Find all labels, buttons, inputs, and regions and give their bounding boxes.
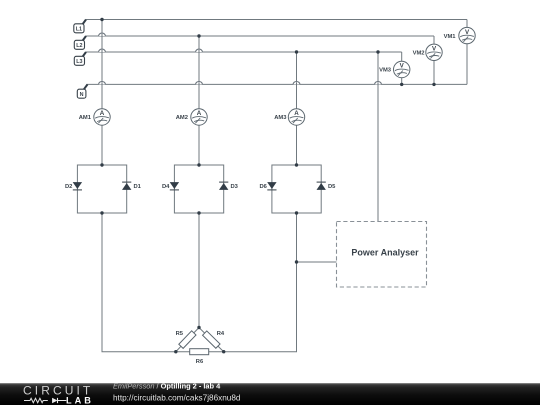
wire VM2 leads bbox=[433, 36, 435, 84]
resistor R4 bbox=[197, 326, 225, 354]
svg-text:Power Analyser: Power Analyser bbox=[351, 248, 419, 258]
wire bridge loop 3 bbox=[272, 165, 321, 213]
svg-text:AM1: AM1 bbox=[79, 115, 92, 121]
svg-text:L2: L2 bbox=[76, 43, 82, 49]
label AM2 bbox=[176, 115, 188, 121]
wire power analyser voltage tap bbox=[377, 52, 379, 222]
wire VM3 leads bbox=[401, 52, 403, 84]
junction on L3 at tap3 bbox=[295, 50, 298, 53]
net flag L2 bbox=[74, 36, 86, 49]
label VM1 bbox=[444, 34, 457, 40]
label R5 bbox=[176, 331, 184, 337]
wire load leg 3 bbox=[209, 213, 297, 352]
net flag L1 bbox=[74, 20, 86, 33]
wire phase 3 tap vertical bbox=[296, 52, 298, 165]
svg-text:http://circuitlab.com/caks7j86: http://circuitlab.com/caks7j86xnu8d bbox=[113, 393, 241, 402]
svg-text:VM2: VM2 bbox=[413, 51, 425, 57]
junction on N at VM3 bbox=[400, 83, 403, 86]
net flag N bbox=[77, 84, 87, 98]
junction bridge3 bottom bbox=[295, 211, 298, 214]
svg-text:AM2: AM2 bbox=[176, 115, 188, 121]
diode D5 bbox=[317, 182, 326, 190]
wire L2 bus bbox=[86, 35, 434, 37]
junction on L2 at tap2 bbox=[197, 34, 200, 37]
power analyser box bbox=[337, 222, 427, 288]
label D5 bbox=[328, 184, 336, 190]
diode D1 bbox=[122, 182, 131, 190]
junction bridge1 top bbox=[100, 163, 103, 166]
svg-text:D3: D3 bbox=[231, 184, 239, 190]
voltmeter VM1 bbox=[459, 27, 475, 43]
svg-text:LAB: LAB bbox=[66, 396, 94, 405]
label R6 bbox=[196, 359, 204, 365]
wire load leg 2 bbox=[198, 213, 200, 328]
junction bridge3 top bbox=[295, 163, 298, 166]
label D4 bbox=[162, 184, 170, 190]
label AM3 bbox=[274, 115, 287, 121]
junction on L3 at analyser tap bbox=[376, 50, 379, 53]
junction bridge2 top bbox=[197, 163, 200, 166]
ammeter AM2 bbox=[191, 109, 207, 125]
wire analyser left branch bbox=[297, 261, 337, 263]
junction R4 bottom bbox=[222, 350, 225, 353]
ammeter AM3 bbox=[288, 109, 304, 125]
junction analyser branch bbox=[295, 260, 298, 263]
svg-text:D5: D5 bbox=[328, 184, 336, 190]
label D6 bbox=[259, 184, 267, 190]
label D1 bbox=[134, 184, 142, 190]
svg-text:D6: D6 bbox=[259, 184, 267, 190]
wire bridge loop 2 bbox=[174, 165, 223, 213]
svg-text:L3: L3 bbox=[76, 59, 82, 65]
voltmeter VM2 bbox=[426, 44, 442, 60]
label R4 bbox=[217, 331, 225, 337]
wire hop tap1 over L2 bbox=[99, 33, 106, 37]
junction on L1 at tap1 bbox=[100, 18, 103, 21]
wire bridge loop 1 bbox=[77, 165, 126, 213]
voltmeter VM3 bbox=[394, 61, 410, 77]
wire L3 bus bbox=[86, 51, 402, 53]
diode D6 bbox=[267, 182, 276, 190]
diode D2 bbox=[73, 182, 82, 190]
wire phase 2 tap vertical bbox=[198, 36, 200, 165]
net flag L3 bbox=[74, 52, 86, 65]
diode D4 bbox=[170, 182, 179, 190]
junction R5 R4 apex bbox=[197, 326, 200, 329]
svg-text:AM3: AM3 bbox=[274, 115, 287, 121]
svg-text:D1: D1 bbox=[134, 184, 142, 190]
wire hop tap1 over N bbox=[99, 82, 106, 86]
wire hop tap2 over L3 bbox=[196, 49, 203, 52]
svg-text:VM1: VM1 bbox=[444, 34, 457, 40]
svg-text:D4: D4 bbox=[162, 184, 170, 190]
junction R5 bottom bbox=[174, 350, 177, 353]
svg-text:N: N bbox=[80, 92, 84, 98]
svg-text:R5: R5 bbox=[176, 331, 184, 337]
resistor R6 bbox=[190, 349, 209, 355]
svg-text:R4: R4 bbox=[217, 331, 225, 337]
wire load leg 1 bbox=[102, 213, 190, 352]
svg-text:D2: D2 bbox=[65, 184, 72, 190]
label D2 bbox=[65, 184, 72, 190]
wire phase 1 tap vertical bbox=[101, 20, 103, 166]
svg-text:VM3: VM3 bbox=[379, 68, 392, 74]
wire hop tap3 over N bbox=[293, 82, 300, 85]
wire L1 bus bbox=[86, 19, 467, 21]
junction bridge1 bottom bbox=[100, 211, 103, 214]
junction on N at VM2 bbox=[432, 83, 435, 86]
svg-text:L1: L1 bbox=[76, 27, 82, 33]
junction bridge2 bottom bbox=[197, 211, 200, 214]
wire hop analyser tap over N bbox=[375, 82, 382, 85]
svg-text:R6: R6 bbox=[196, 359, 204, 365]
label VM3 bbox=[379, 68, 392, 74]
label D3 bbox=[231, 184, 239, 190]
svg-text:EmilPersson / Optilling 2 - la: EmilPersson / Optilling 2 - lab 4 bbox=[113, 383, 221, 391]
wire hop tap1 over L3 bbox=[99, 49, 106, 53]
ammeter AM1 bbox=[94, 109, 110, 125]
wire VM1 leads bbox=[466, 20, 468, 85]
label AM1 bbox=[79, 115, 92, 121]
diode D3 bbox=[219, 182, 228, 190]
resistor R5 bbox=[174, 325, 202, 353]
label VM2 bbox=[413, 51, 425, 57]
wire hop tap2 over N bbox=[196, 82, 203, 85]
wire N bus bbox=[87, 83, 467, 85]
